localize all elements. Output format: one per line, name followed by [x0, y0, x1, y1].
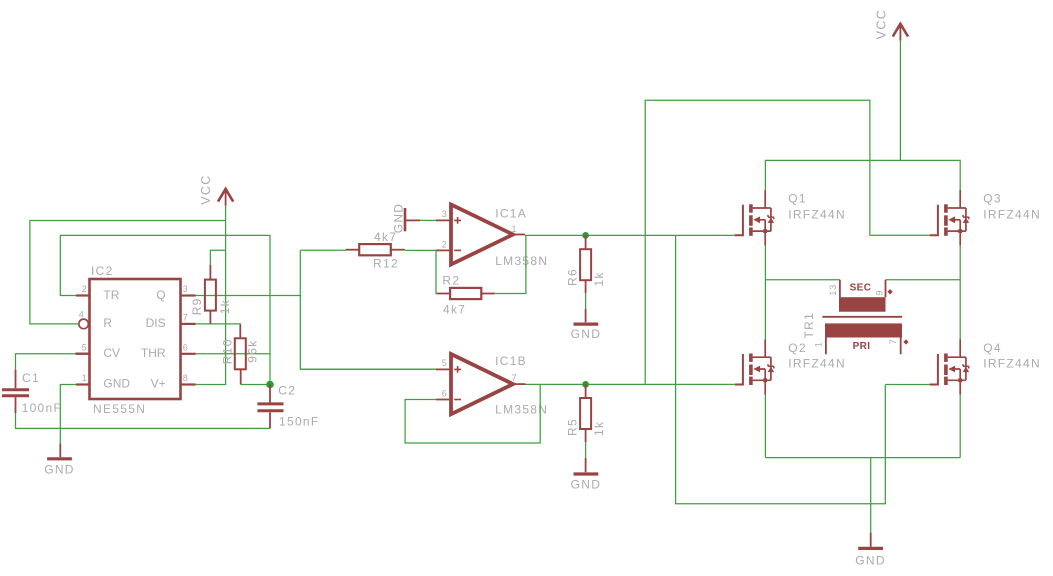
svg-text:IRFZ44N: IRFZ44N	[983, 207, 1041, 221]
op-amp IC1A	[451, 205, 513, 265]
supply symbol VCC right	[893, 24, 908, 37]
TR1 primary winding	[825, 323, 902, 337]
wire R10 bottom to timing node	[241, 384, 270, 386]
resistor R2 right lead	[481, 293, 494, 295]
IC2 pin 5 stub maroon (over)	[75, 353, 89, 355]
svg-text:PRI: PRI	[853, 341, 871, 352]
wire Q3 source to Q4 drain	[959, 246, 961, 340]
wire output riser down to IC1B pin 5	[300, 296, 435, 370]
IC2 pin 7 stub	[181, 323, 196, 325]
IC1B pin 7 stub	[513, 383, 526, 385]
svg-text:150nF: 150nF	[279, 415, 320, 429]
svg-text:VCC: VCC	[874, 9, 888, 39]
capacitor C2 top lead	[269, 385, 271, 403]
svg-text:VCC: VCC	[199, 174, 213, 204]
ground lead left	[59, 444, 61, 458]
resistor R12 body	[359, 244, 391, 255]
capacitor C2 bottom lead	[269, 412, 271, 428]
resistor R9 body	[205, 280, 216, 311]
wire CV pin 5 to C1	[16, 354, 76, 370]
svg-text:7: 7	[888, 339, 898, 345]
wire R12 to IC1A pin 2	[405, 249, 436, 251]
resistor R6 top lead	[585, 235, 587, 249]
resistor R12 left lead	[346, 249, 360, 251]
IC2 pin 1 stub	[76, 383, 90, 385]
svg-text:2: 2	[442, 239, 448, 249]
svg-text:3: 3	[183, 284, 189, 294]
resistor R6 bottom lead	[585, 280, 587, 293]
wire Q4 source down	[959, 395, 961, 458]
svg-text:Q4: Q4	[983, 341, 1002, 355]
IC IC2 NE555 body	[90, 279, 181, 399]
svg-text:1: 1	[82, 373, 88, 383]
wire DIS pin 7 to R10	[196, 324, 241, 326]
wire IC1A feedback left	[436, 250, 438, 293]
svg-text:IC2: IC2	[91, 264, 114, 278]
ground lead bottom	[870, 533, 872, 547]
svg-text:TR1: TR1	[802, 312, 816, 339]
ground symbol at IC1A pin 3	[404, 208, 407, 231]
svg-text:3: 3	[442, 209, 448, 219]
junction IC1A output / R6	[582, 232, 589, 239]
capacitor C1 top lead	[15, 370, 17, 389]
svg-text:7: 7	[183, 313, 189, 323]
wire source rail to GND	[870, 458, 872, 533]
ground lead to pin 3	[406, 219, 420, 221]
svg-text:GND: GND	[855, 554, 886, 568]
svg-text:1k: 1k	[592, 421, 606, 436]
TR1 primary leads	[826, 338, 901, 355]
TR1 pin 9 polarity dot	[887, 289, 892, 294]
resistor R9 top lead	[209, 265, 211, 280]
svg-text:8: 8	[183, 373, 189, 383]
transistor Q4 (N-MOSFET)	[930, 339, 970, 395]
svg-text:Q2: Q2	[788, 341, 807, 355]
transistor Q3 (N-MOSFET)	[930, 190, 970, 246]
IC1A pin 2 stub	[436, 249, 450, 251]
svg-text:GND: GND	[392, 203, 406, 234]
wire reset pin 4 to VCC	[30, 221, 226, 324]
svg-text:R12: R12	[373, 257, 399, 271]
ground symbol GND under R6	[574, 323, 599, 326]
svg-text:GND: GND	[571, 327, 602, 341]
wire Q4 gate	[885, 384, 929, 386]
wire IC1A net to Q4 gate	[676, 235, 886, 503]
wire source rail	[765, 457, 960, 459]
svg-text:Q3: Q3	[983, 192, 1002, 206]
wire to SEC pin 13	[765, 279, 840, 281]
svg-text:4k7: 4k7	[443, 303, 466, 317]
ground symbol GND bottom	[858, 547, 883, 550]
svg-text:1k: 1k	[592, 271, 606, 286]
svg-text:R10: R10	[220, 338, 234, 364]
resistor R9 bottom lead	[209, 311, 211, 324]
resistor R5 bottom lead	[585, 429, 587, 442]
wire R9 to VCC	[210, 250, 225, 265]
svg-text:C2: C2	[278, 384, 296, 398]
IC2 pin 4 inverted-pin circle	[79, 319, 89, 329]
svg-text:6: 6	[442, 388, 448, 398]
svg-text:C1: C1	[22, 371, 40, 385]
svg-text:TR: TR	[103, 288, 119, 302]
wire to IC1B pin 5	[300, 368, 436, 370]
svg-text:V+: V+	[151, 377, 166, 391]
wire bottom rail C1 to C2	[16, 413, 271, 428]
resistor R2 body	[450, 288, 481, 299]
svg-text:R5: R5	[565, 418, 579, 436]
resistor R12 right lead	[391, 249, 405, 251]
svg-text:9: 9	[874, 290, 884, 296]
wire Q1 source to Q2 drain	[764, 246, 766, 340]
svg-text:5: 5	[442, 358, 448, 368]
wire R2 to IC1A output	[495, 235, 526, 293]
svg-text:GND: GND	[103, 377, 130, 391]
IC2 pin 6 stub	[181, 353, 196, 355]
resistor R10 top lead	[239, 325, 241, 339]
wire IC1B net riser to Q3 gate	[645, 100, 930, 384]
ground lead R6	[585, 309, 587, 322]
wire VCC rail to Q1/Q3 drains	[765, 160, 960, 191]
wire IC1A output to Q1 gate	[525, 234, 735, 236]
svg-text:CV: CV	[103, 346, 120, 360]
IC2 pin 8 stub	[181, 383, 196, 385]
supply symbol VCC left	[218, 189, 233, 202]
svg-text:2: 2	[82, 284, 88, 294]
svg-text:R6: R6	[565, 268, 579, 286]
TR1 core line	[822, 316, 902, 318]
wire R5 to gnd	[585, 442, 587, 458]
wire output riser up	[299, 250, 301, 295]
svg-text:IC1A: IC1A	[495, 206, 527, 220]
svg-text:13: 13	[828, 284, 838, 296]
IC2 pin 3 stub	[181, 294, 196, 296]
svg-text:THR: THR	[141, 346, 166, 360]
TR1 secondary winding	[839, 297, 886, 312]
resistor R5 body	[580, 398, 591, 429]
IC2 pin 5 stub	[76, 353, 90, 355]
svg-text:100nF: 100nF	[22, 401, 63, 415]
wire output to R12	[300, 249, 345, 251]
svg-text:5: 5	[82, 342, 88, 352]
svg-text:Q: Q	[156, 288, 165, 302]
wire VCC stem right	[899, 41, 901, 161]
svg-text:SEC: SEC	[850, 283, 872, 294]
wire Q2 source down	[764, 395, 766, 458]
capacitor C2 plates	[257, 404, 283, 411]
ground lead R5	[585, 458, 587, 472]
TR1 secondary leads	[840, 280, 886, 297]
capacitor C1 plates	[2, 390, 29, 396]
resistor R10 bottom lead	[240, 369, 242, 384]
svg-text:1k: 1k	[218, 299, 232, 314]
svg-text:1: 1	[813, 341, 823, 347]
svg-text:R2: R2	[442, 274, 460, 288]
svg-text:6: 6	[183, 342, 189, 352]
IC1A pin 1 stub	[513, 234, 525, 236]
IC1A pin 3 stub	[436, 219, 450, 221]
ground symbol GND left	[47, 457, 72, 460]
wire VCC to V+ pin 8	[196, 206, 226, 385]
wire IC1B output to Q2 gate	[526, 383, 735, 385]
wire SEC pin 9 to Q3 source	[886, 279, 961, 281]
IC1B pin 5 stub	[436, 368, 450, 370]
ground symbol GND under R5	[574, 472, 599, 475]
svg-text:Q1: Q1	[788, 192, 807, 206]
svg-text:IRFZ44N: IRFZ44N	[983, 357, 1041, 371]
wire R6 to gnd	[585, 293, 587, 309]
op-amp IC1B	[451, 354, 513, 414]
IC1B pin 6 stub	[436, 399, 450, 401]
svg-text:GND: GND	[44, 463, 75, 477]
transistor Q2 (N-MOSFET)	[735, 339, 775, 395]
svg-text:96k: 96k	[246, 339, 260, 362]
resistor R2 left lead	[437, 293, 450, 295]
svg-text:NE555N: NE555N	[93, 402, 146, 416]
wire Q pin 3 output	[196, 295, 301, 297]
transistor Q1 (N-MOSFET)	[735, 190, 775, 246]
TR1 pin 7 polarity dot	[903, 339, 908, 344]
capacitor C1 bottom lead	[15, 397, 17, 413]
wire GND pin 1 down	[60, 385, 76, 444]
svg-text:R9: R9	[190, 297, 204, 315]
IC2 pin 2 stub	[76, 294, 90, 296]
resistor R10 body	[235, 338, 246, 369]
wire THR pin 6 to timing node	[196, 353, 270, 355]
svg-text:DIS: DIS	[146, 316, 166, 330]
resistor R5 top lead	[585, 384, 587, 398]
junction timing node / C2	[266, 381, 274, 389]
svg-text:IRFZ44N: IRFZ44N	[788, 357, 846, 371]
wire IC1B feedback	[405, 384, 540, 443]
wire gnd to IC1A pin 3	[420, 219, 436, 221]
wire TR pin 2 riser to timing node	[60, 235, 270, 381]
svg-text:GND: GND	[571, 477, 602, 491]
svg-text:IC1B: IC1B	[495, 354, 527, 368]
junction IC1B output / R5	[582, 381, 589, 388]
svg-text:IRFZ44N: IRFZ44N	[788, 207, 846, 221]
resistor R6 body	[580, 249, 591, 280]
svg-text:R: R	[103, 316, 112, 330]
svg-text:7: 7	[512, 373, 518, 383]
svg-text:1: 1	[512, 224, 518, 234]
svg-text:4: 4	[79, 310, 85, 320]
svg-text:LM358N: LM358N	[495, 254, 548, 268]
